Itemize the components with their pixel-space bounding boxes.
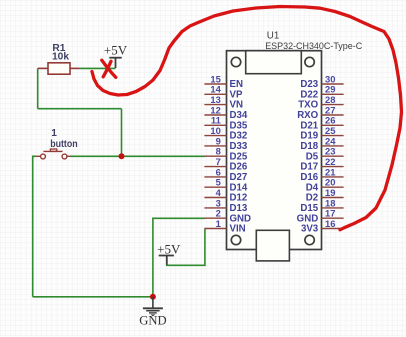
pin 17 GND (right) bbox=[297, 208, 344, 225]
power flag +5V top bbox=[104, 43, 128, 68]
annotation red loop around module bbox=[92, 7, 402, 230]
pin 26 D21 (right) bbox=[300, 115, 343, 132]
pin 10 D32 (left) bbox=[204, 125, 247, 142]
pin 13 VN (left) bbox=[204, 94, 243, 111]
svg-text:1: 1 bbox=[216, 218, 221, 229]
pin 18 D15 (right) bbox=[300, 197, 343, 214]
resistor R1 bbox=[38, 63, 79, 74]
MCU module U1 ESP32-CH340C-Type-C bbox=[227, 51, 322, 261]
pin 20 D4 (right) bbox=[306, 177, 344, 194]
mounting hole top-left bbox=[231, 57, 240, 66]
wire horizontal mid-left bbox=[38, 108, 122, 110]
svg-text:23: 23 bbox=[325, 146, 335, 157]
pin 3 D13 (left) bbox=[204, 197, 247, 214]
junction on button row bbox=[119, 153, 125, 159]
svg-text:16: 16 bbox=[325, 218, 335, 229]
wire down to button row bbox=[121, 109, 123, 157]
pin 6 D27 (left) bbox=[204, 166, 247, 183]
pin 30 D23 (right) bbox=[300, 73, 343, 90]
junction at GND bbox=[150, 294, 156, 300]
pin 25 D19 (right) bbox=[300, 125, 343, 142]
wire button to pin D25 bbox=[70, 155, 205, 157]
pin 14 VP (left) bbox=[204, 84, 243, 101]
pin 1 VIN (left) bbox=[204, 218, 245, 235]
mounting hole top-right bbox=[305, 57, 314, 66]
svg-text:8: 8 bbox=[216, 146, 221, 157]
ground GND bbox=[139, 297, 166, 328]
svg-text:GND: GND bbox=[139, 314, 166, 328]
svg-text:VIN: VIN bbox=[230, 224, 246, 235]
svg-text:28: 28 bbox=[325, 94, 335, 105]
svg-text:1: 1 bbox=[51, 128, 57, 139]
wire +5V bottom to pin VIN(1) bbox=[167, 229, 205, 266]
pin 27 RXO (right) bbox=[297, 104, 343, 121]
svg-text:D2: D2 bbox=[306, 193, 318, 204]
svg-text:button: button bbox=[50, 139, 77, 150]
pin 11 D35 (left) bbox=[204, 115, 247, 132]
wire button left leg down bbox=[33, 156, 36, 296]
svg-text:+5V: +5V bbox=[157, 241, 181, 256]
svg-text:D25: D25 bbox=[230, 151, 248, 162]
pin 7 D26 (left) bbox=[204, 156, 247, 173]
pin 28 TXO (right) bbox=[298, 94, 343, 111]
pin 24 D18 (right) bbox=[300, 135, 343, 152]
svg-text:3V3: 3V3 bbox=[301, 224, 319, 235]
pin 19 D2 (right) bbox=[306, 187, 344, 204]
svg-text:D12: D12 bbox=[230, 193, 248, 204]
pin 21 D16 (right) bbox=[300, 166, 343, 183]
pin 23 D5 (right) bbox=[306, 146, 344, 163]
wire from R1 left terminal down bbox=[37, 68, 39, 108]
pin 2 GND (left) bbox=[204, 208, 251, 225]
svg-text:19: 19 bbox=[325, 187, 335, 198]
svg-text:D5: D5 bbox=[306, 151, 319, 162]
svg-text:10k: 10k bbox=[52, 52, 69, 63]
svg-text:13: 13 bbox=[210, 94, 220, 105]
wire bottom horizontal to GND bbox=[33, 296, 153, 298]
svg-text:4: 4 bbox=[216, 187, 222, 198]
annotation red X over +5V bbox=[102, 60, 116, 77]
pin 4 D12 (left) bbox=[204, 187, 247, 204]
svg-text:VN: VN bbox=[230, 100, 243, 111]
svg-text:+5V: +5V bbox=[104, 43, 128, 58]
pin 29 D22 (right) bbox=[300, 84, 343, 101]
chip body bbox=[227, 51, 322, 250]
pin 8 D25 (left) bbox=[204, 146, 247, 163]
svg-text:ESP32-CH340C-Type-C: ESP32-CH340C-Type-C bbox=[265, 40, 362, 51]
svg-text:TXO: TXO bbox=[298, 100, 318, 111]
pin 12 D34 (left) bbox=[204, 104, 247, 121]
wire GND up to pin GND(2) bbox=[153, 218, 205, 296]
mounting hole bottom-left bbox=[231, 235, 240, 244]
mounting hole bottom-right bbox=[305, 235, 314, 244]
pin 16 3V3 (right) bbox=[301, 218, 344, 235]
pin 15 EN (left) bbox=[204, 73, 243, 90]
usb connector bbox=[256, 230, 289, 261]
pin 22 D17 (right) bbox=[300, 156, 343, 173]
pushbutton "1 button" bbox=[36, 149, 71, 159]
pin 9 D33 (left) bbox=[204, 135, 247, 152]
pin 5 D14 (left) bbox=[204, 177, 247, 194]
antenna notch bbox=[246, 51, 302, 74]
power flag +5V bottom bbox=[157, 241, 181, 265]
wire R1 right to +5V top bbox=[79, 67, 116, 69]
